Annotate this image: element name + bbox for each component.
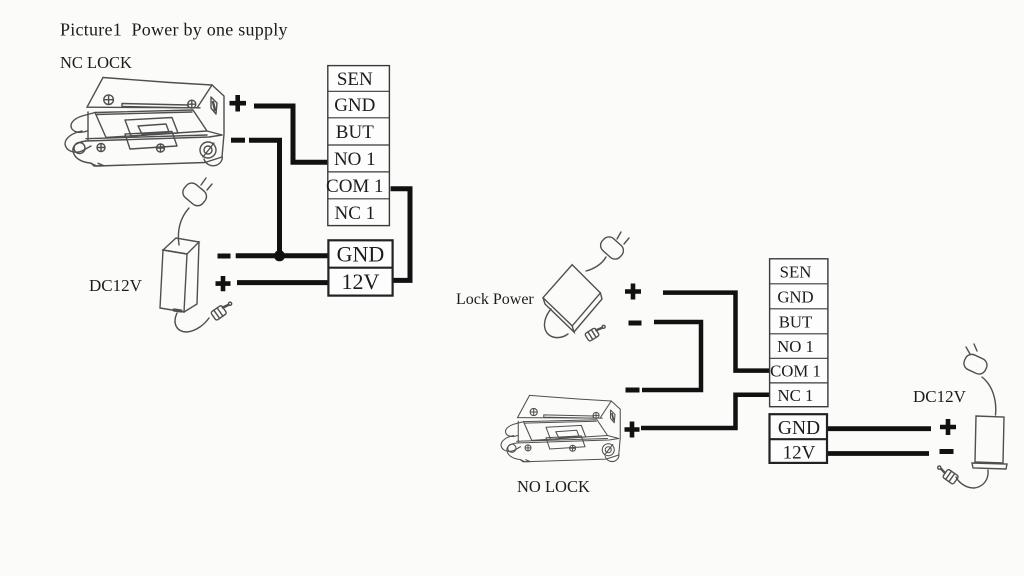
lock NC (electric strike drawing): [65, 78, 224, 167]
svg-text:Picture1 Power by one supply: Picture1 Power by one supply: [60, 20, 288, 40]
svg-text:12V: 12V: [783, 443, 816, 464]
minus sign adapter -: [218, 254, 231, 259]
power terminal block left GND/12V: [328, 240, 392, 295]
wire adapter+ to 12V: [237, 280, 328, 285]
plus sign adapter +: [216, 276, 231, 291]
svg-text:NO LOCK: NO LOCK: [517, 477, 590, 496]
minus sign right adapter -: [629, 321, 642, 326]
terminal block right: [770, 259, 828, 407]
svg-text:NC 1: NC 1: [334, 203, 375, 224]
plus sign lock +: [230, 95, 247, 112]
wire lock+ to NO1: [254, 106, 328, 162]
svg-text:DC12V: DC12V: [89, 276, 143, 295]
svg-text:DC12V: DC12V: [913, 387, 967, 406]
power adapter DC12V left: [160, 178, 235, 332]
power adapter Lock Power (tilted box): [543, 232, 629, 342]
wire right adapter+ to COM1: [663, 293, 770, 371]
plus sign right lock +: [625, 422, 640, 438]
wire adapter- to GND: [236, 253, 329, 258]
minus sign lock -: [231, 138, 245, 143]
svg-text:SEN: SEN: [337, 69, 373, 90]
wire 12V to DC12V -: [827, 451, 929, 456]
wire GND to DC12V +: [827, 426, 931, 431]
power adapter DC12V right: [935, 344, 1007, 488]
minus sign DC12V -: [940, 449, 954, 454]
svg-text:BUT: BUT: [336, 122, 374, 143]
wire lock- to junction: [249, 140, 280, 256]
svg-text:SEN: SEN: [780, 262, 812, 281]
wire right lock+ to NC1: [641, 395, 770, 428]
svg-text:NO 1: NO 1: [334, 149, 376, 170]
svg-text:BUT: BUT: [779, 312, 813, 331]
svg-text:COM 1: COM 1: [770, 362, 821, 381]
svg-text:GND: GND: [334, 95, 375, 116]
lock NO (electric strike drawing, reused): [501, 395, 620, 461]
wire right adapter- to lock-: [642, 322, 701, 390]
svg-text:COM 1: COM 1: [326, 176, 384, 197]
minus sign right lock -: [626, 388, 640, 393]
svg-text:GND: GND: [337, 242, 385, 267]
terminal block left: [328, 66, 390, 226]
wire COM1 to 12V right side: [391, 189, 410, 281]
svg-text:GND: GND: [778, 418, 820, 439]
junction dot: [274, 250, 285, 261]
svg-text:NC LOCK: NC LOCK: [60, 53, 132, 72]
svg-text:NC 1: NC 1: [778, 386, 814, 405]
svg-text:Lock Power: Lock Power: [456, 291, 534, 308]
plus sign DC12V +: [940, 419, 956, 435]
power terminal block right GND/12V: [770, 414, 828, 463]
plus sign right adapter +: [625, 284, 641, 300]
svg-text:NO 1: NO 1: [777, 337, 814, 356]
svg-text:GND: GND: [777, 287, 813, 306]
svg-text:12V: 12V: [342, 269, 380, 294]
